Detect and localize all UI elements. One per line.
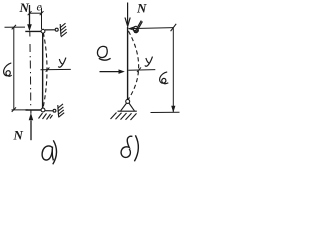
label b)	[121, 136, 132, 157]
force Q label	[97, 46, 110, 60]
ground hatching (b)	[111, 113, 137, 121]
dimension e line	[28, 8, 44, 30]
svg-text:N: N	[19, 0, 30, 15]
deflection y leader line	[41, 68, 71, 72]
bottom hinge circle	[41, 108, 45, 112]
length dimension l (right, vertical)	[172, 28, 174, 112]
force N arrow (top, downward)	[29, 5, 31, 25]
bottom link to wall	[45, 110, 53, 112]
column (straight, solid)	[42, 33, 44, 110]
column b	[127, 27, 129, 100]
svg-text:N: N	[13, 128, 24, 143]
ground hatching under bottom bar	[39, 113, 53, 120]
bottom bar	[26, 109, 43, 111]
force N arrow (down along column)	[125, 3, 130, 27]
bottom arrow of l dimension	[171, 106, 175, 113]
length dimension l (left)	[5, 25, 29, 112]
l label (a)	[4, 63, 12, 76]
deflected shape (dashed curve)	[43, 33, 47, 109]
y label (a)	[58, 58, 66, 68]
line of action of N (dash-dot)	[29, 32, 32, 106]
top link to wall	[45, 29, 55, 31]
label a)	[42, 146, 52, 160]
base extension line (bottom right)	[151, 111, 180, 113]
top link small circle	[55, 28, 58, 31]
reaction N arrow (bottom, upward)	[30, 121, 32, 141]
pin support circle (b)	[126, 99, 130, 103]
delta label	[133, 21, 142, 34]
l label (b)	[160, 72, 169, 84]
y label (b)	[145, 57, 153, 67]
deflected shape b (dashed)	[128, 31, 138, 100]
corner tick (top right)	[171, 24, 177, 31]
bottom link small circle	[53, 109, 56, 112]
svg-text:N: N	[136, 1, 147, 16]
pin support triangle (b)	[118, 103, 137, 111]
bottom wall with hatching	[57, 104, 64, 117]
top wall with hatching	[60, 23, 67, 37]
y leader line (b)	[128, 67, 155, 72]
top bar	[25, 30, 42, 32]
top hinge circle	[41, 29, 45, 33]
delta dimension line (top)	[129, 27, 173, 31]
force Q arrow (rightward)	[100, 71, 120, 73]
